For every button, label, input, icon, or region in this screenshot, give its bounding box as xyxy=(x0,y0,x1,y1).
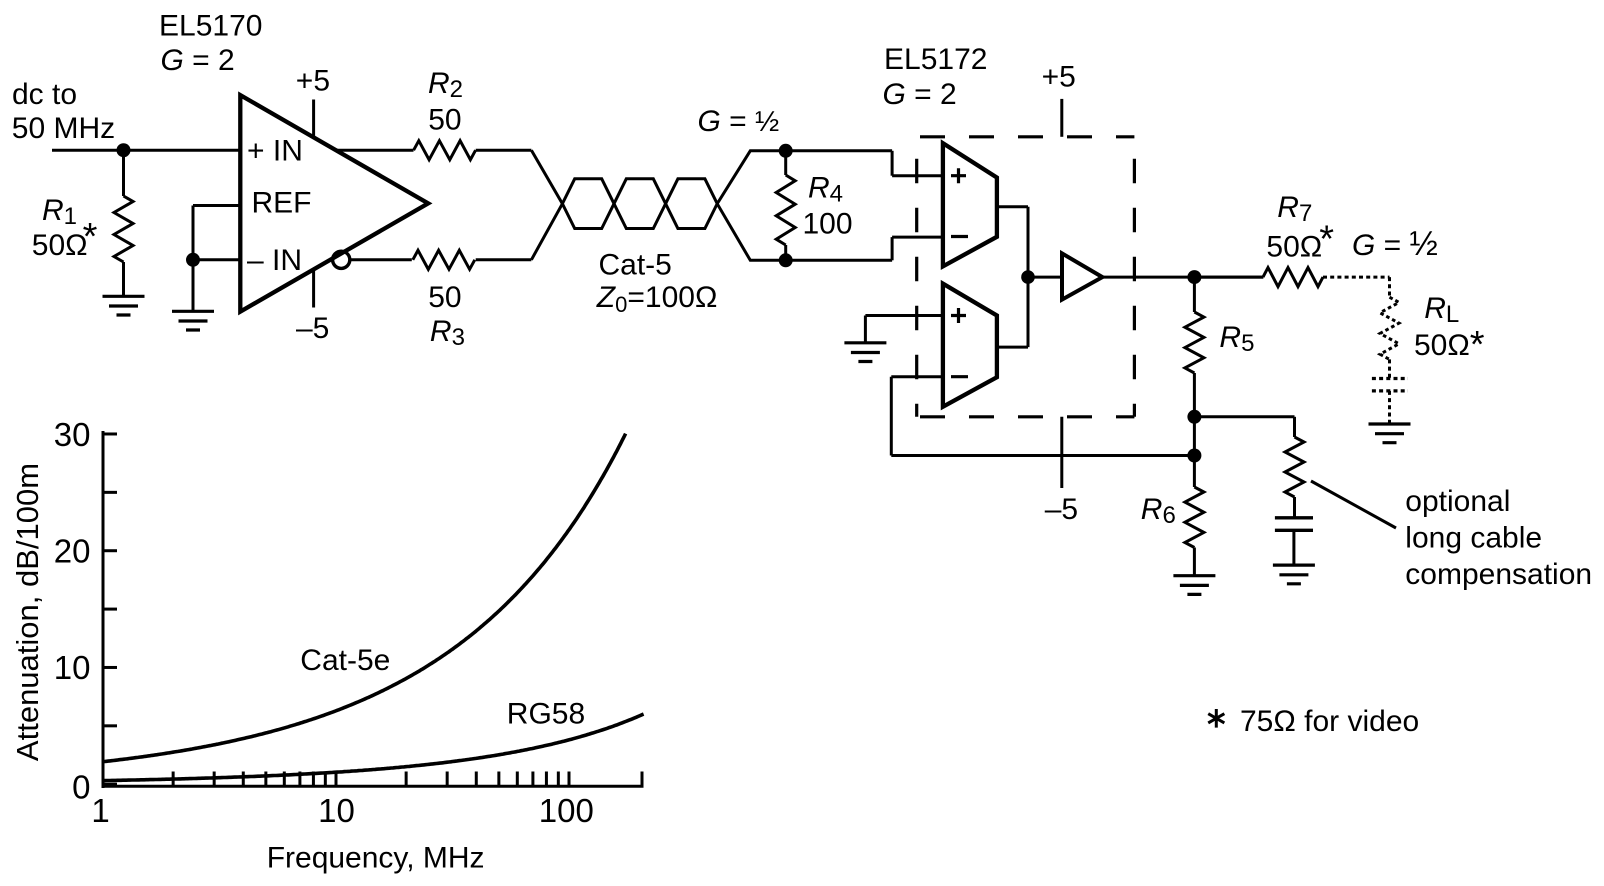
svg-text:G = ½: G = ½ xyxy=(698,105,780,138)
svg-text:EL5170: EL5170 xyxy=(159,9,262,42)
svg-text:dc to: dc to xyxy=(12,78,77,111)
svg-text:50: 50 xyxy=(428,281,461,314)
svg-text:EL5172: EL5172 xyxy=(884,43,987,76)
svg-text:50: 50 xyxy=(428,104,461,137)
svg-text:Frequency, MHz: Frequency, MHz xyxy=(267,842,485,875)
svg-text:Z0=100Ω: Z0=100Ω xyxy=(596,281,718,317)
svg-text:0: 0 xyxy=(72,769,90,806)
svg-text:100: 100 xyxy=(539,792,594,829)
svg-text:100: 100 xyxy=(803,208,853,241)
svg-text:75Ω for video: 75Ω for video xyxy=(1240,705,1419,738)
svg-text:compensation: compensation xyxy=(1405,558,1592,591)
svg-text:G = ½: G = ½ xyxy=(1352,225,1438,263)
svg-text:REF: REF xyxy=(252,187,312,220)
svg-text:50Ω*: 50Ω* xyxy=(1414,324,1485,366)
svg-text:–5: –5 xyxy=(1045,493,1078,526)
svg-text:+5: +5 xyxy=(1042,61,1076,94)
svg-text:+ IN: + IN xyxy=(247,135,303,168)
svg-text:G = 2: G = 2 xyxy=(883,78,957,111)
svg-text:20: 20 xyxy=(54,533,91,570)
svg-text:G = 2: G = 2 xyxy=(161,44,235,77)
svg-text:– IN: – IN xyxy=(247,244,302,277)
svg-text:Cat-5: Cat-5 xyxy=(599,248,672,281)
svg-text:30: 30 xyxy=(54,416,91,453)
svg-text:1: 1 xyxy=(91,792,109,829)
svg-text:+5: +5 xyxy=(296,64,330,97)
svg-text:50 MHz: 50 MHz xyxy=(12,112,115,145)
svg-text:–5: –5 xyxy=(296,312,329,345)
svg-text:10: 10 xyxy=(318,792,355,829)
svg-text:optional: optional xyxy=(1405,485,1510,518)
svg-text:Attenuation, dB/100m: Attenuation, dB/100m xyxy=(10,463,45,761)
svg-text:RG58: RG58 xyxy=(507,698,585,731)
svg-text:long cable: long cable xyxy=(1405,522,1542,555)
svg-text:Cat-5e: Cat-5e xyxy=(300,644,390,677)
svg-text:10: 10 xyxy=(54,649,91,686)
